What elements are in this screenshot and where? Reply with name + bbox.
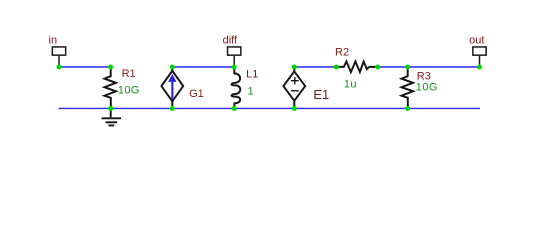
node dot R1 top xyxy=(108,65,113,70)
svg-text:10G: 10G xyxy=(118,85,140,97)
node dot E1 bottom xyxy=(292,106,297,111)
resistor R1 xyxy=(105,67,117,108)
node dot R3 bottom xyxy=(405,106,410,111)
node dot R2 left xyxy=(334,65,339,70)
svg-text:R2: R2 xyxy=(335,47,349,59)
wire ground rail xyxy=(59,107,481,109)
svg-text:diff: diff xyxy=(223,34,238,46)
resistor R3 xyxy=(402,67,414,108)
svg-text:10G: 10G xyxy=(416,81,438,93)
inductor L1 xyxy=(232,67,241,108)
resistor R2 xyxy=(336,62,377,73)
ground xyxy=(102,108,122,125)
port in xyxy=(52,47,65,67)
wire net in: in port to R1 top xyxy=(59,66,111,68)
svg-text:L1: L1 xyxy=(246,69,258,81)
svg-text:1: 1 xyxy=(248,85,255,97)
svg-text:R1: R1 xyxy=(122,68,136,80)
vccs G1 diamond xyxy=(161,67,183,108)
vcvs E1 diamond xyxy=(283,67,305,108)
svg-text:out: out xyxy=(469,35,484,47)
port out xyxy=(473,47,486,67)
node dot E1 top xyxy=(292,65,297,70)
port diff xyxy=(228,47,241,67)
svg-text:1u: 1u xyxy=(344,78,357,90)
svg-text:G1: G1 xyxy=(189,88,204,100)
node dot diff xyxy=(232,65,237,70)
svg-text:E1: E1 xyxy=(313,87,329,102)
wire net diff: G1 top to diff port / L1 xyxy=(172,66,234,68)
wire E1 top to R2 left xyxy=(294,66,336,68)
E1 plus sign xyxy=(291,77,299,91)
node dot L1 bottom xyxy=(232,106,237,111)
wire R2 right to R3 top to out port xyxy=(378,66,480,68)
G1 arrow xyxy=(168,74,176,100)
svg-text:in: in xyxy=(49,35,58,47)
node dot R1 bottom / ground xyxy=(108,106,113,111)
node dot out xyxy=(477,65,482,70)
node dot G1 top xyxy=(170,65,175,70)
node dot R2 right xyxy=(375,65,380,70)
node dot G1 bottom xyxy=(170,106,175,111)
node dot in xyxy=(57,65,62,70)
E1 minus sign xyxy=(291,90,299,92)
node dot R3 top xyxy=(405,65,410,70)
